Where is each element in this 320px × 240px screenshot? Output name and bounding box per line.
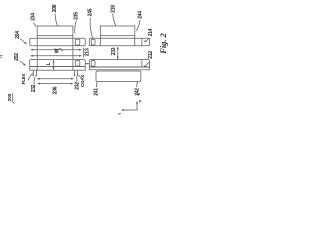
board rect 240 <box>96 71 141 82</box>
feed square 245 <box>91 39 95 45</box>
svg-text:200: 200 <box>7 93 12 101</box>
svg-text:Y: Y <box>118 112 122 115</box>
svg-text:244: 244 <box>137 11 143 19</box>
svg-text:202: 202 <box>14 53 20 61</box>
bar 204 top substrate <box>30 38 85 46</box>
svg-text:245: 245 <box>87 8 93 16</box>
svg-text:235: 235 <box>73 12 79 20</box>
feed square lower <box>75 60 80 66</box>
leader FLEX <box>28 73 33 80</box>
svg-text:236: 236 <box>52 86 58 94</box>
dimension extension line <box>83 48 85 58</box>
antenna layer rect 208 <box>37 26 73 36</box>
svg-text:218: 218 <box>110 5 116 13</box>
svg-text:L: L <box>46 62 52 65</box>
divider in bar 214 <box>141 38 143 46</box>
svg-text:232: 232 <box>31 84 37 92</box>
leader 232 left <box>34 77 35 85</box>
extension line right r <box>134 36 136 46</box>
underline 200 <box>11 93 13 101</box>
svg-text:214: 214 <box>148 28 154 36</box>
leader 241 <box>96 82 97 88</box>
gap dimension arrow <box>86 63 89 65</box>
L dimension arrow <box>53 60 55 69</box>
extension line left r <box>99 36 101 46</box>
svg-text:213: 213 <box>85 48 91 56</box>
antenna layer rect 218 <box>100 26 135 36</box>
divider in bar 212 <box>141 60 143 67</box>
leader 218 <box>113 13 116 25</box>
leader 245 <box>90 18 93 39</box>
svg-text:FLEX: FLEX <box>21 73 26 84</box>
extension line left <box>36 36 38 70</box>
thin layer bar3 right <box>89 67 149 70</box>
svg-text:212: 212 <box>148 51 154 59</box>
svg-text:208: 208 <box>52 4 58 12</box>
svg-text:Fig. 2: Fig. 2 <box>159 33 168 54</box>
leader 232 right <box>75 77 78 83</box>
stub pin B <box>74 70 76 75</box>
W leader arc <box>59 49 63 52</box>
leader 235 <box>75 21 77 34</box>
leader 208 <box>55 14 58 26</box>
bar 214 top substrate right <box>89 38 149 46</box>
leader 244 <box>136 20 140 31</box>
feed square lower right <box>91 61 95 67</box>
svg-text:X: X <box>139 100 143 103</box>
svg-text:234: 234 <box>30 13 36 21</box>
gap dimension 23X <box>117 47 119 59</box>
leader 234 <box>34 23 37 27</box>
spacing dimension line upper <box>38 78 73 80</box>
arrow 212 <box>145 62 150 67</box>
svg-text:COAX: COAX <box>80 75 85 87</box>
axis triad <box>122 102 137 110</box>
W dimension line lower <box>31 55 81 57</box>
spacing dimension line lower <box>38 83 73 85</box>
stub pin A <box>32 70 34 75</box>
arrow 214 <box>145 38 150 42</box>
extension line right <box>72 36 74 70</box>
svg-text:233: 233 <box>111 47 117 55</box>
leader COAX <box>78 75 81 79</box>
feed square 235 <box>75 39 80 45</box>
arrow 204 <box>20 39 26 44</box>
edge mark <box>0 55 3 56</box>
leader 242 <box>137 82 138 88</box>
arrow 202 <box>20 61 25 66</box>
W dimension line upper <box>31 49 81 51</box>
svg-text:204: 204 <box>15 31 21 39</box>
thin layer bar3 <box>30 67 85 71</box>
bar 202 lower substrate <box>30 60 85 67</box>
bar 212 lower substrate right <box>89 60 149 67</box>
svg-text:241: 241 <box>94 88 100 96</box>
